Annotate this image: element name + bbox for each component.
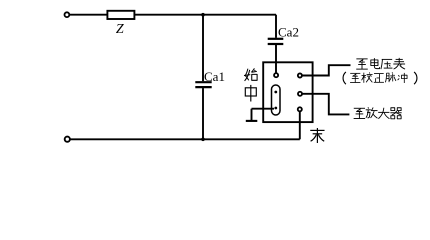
label （至校正脉冲） — [343, 72, 346, 84]
terminal bottom-left — [65, 137, 70, 142]
junction dot top — [201, 13, 205, 17]
svg-text:Ca2: Ca2 — [278, 24, 299, 39]
capacitor Ca2 — [268, 38, 284, 40]
label 末 — [310, 128, 324, 143]
wire Ca1 lower — [202, 88, 204, 139]
contact 始 (left) — [274, 73, 278, 77]
terminal top-left — [65, 12, 70, 17]
wire contact2 to bracket — [302, 94, 349, 115]
wire top: resistor to Ca2 corner — [134, 14, 276, 16]
wire contact3 down — [299, 111, 301, 139]
svg-text:Z: Z — [116, 22, 124, 37]
label 中 — [245, 85, 256, 102]
label 至放大器 — [354, 108, 366, 118]
wire 中 stub vertical — [251, 109, 253, 120]
wire bottom — [70, 138, 300, 140]
label 始 — [244, 68, 257, 81]
switch wiper oval — [272, 85, 281, 115]
wire Ca2 upper — [275, 15, 277, 38]
wire Ca2 lower to switch contact — [275, 45, 277, 73]
wire contact1 to bracket — [302, 65, 351, 75]
svg-text:Ca1: Ca1 — [204, 69, 225, 84]
wire top: terminal to resistor — [70, 14, 108, 16]
contact right 2 — [298, 92, 302, 96]
capacitor Ca1 — [195, 81, 211, 83]
wire Ca1 upper — [202, 15, 204, 82]
wire 中 stub horizontal — [252, 108, 275, 110]
resistor Z — [107, 11, 134, 19]
terminal bar 中 — [246, 120, 257, 122]
wiper dots — [274, 91, 277, 94]
label 至电压表 — [356, 59, 368, 69]
switch box — [263, 62, 312, 122]
contact right 1 — [298, 73, 302, 77]
junction dot bottom — [201, 138, 205, 142]
contact right 3 — [298, 107, 302, 111]
